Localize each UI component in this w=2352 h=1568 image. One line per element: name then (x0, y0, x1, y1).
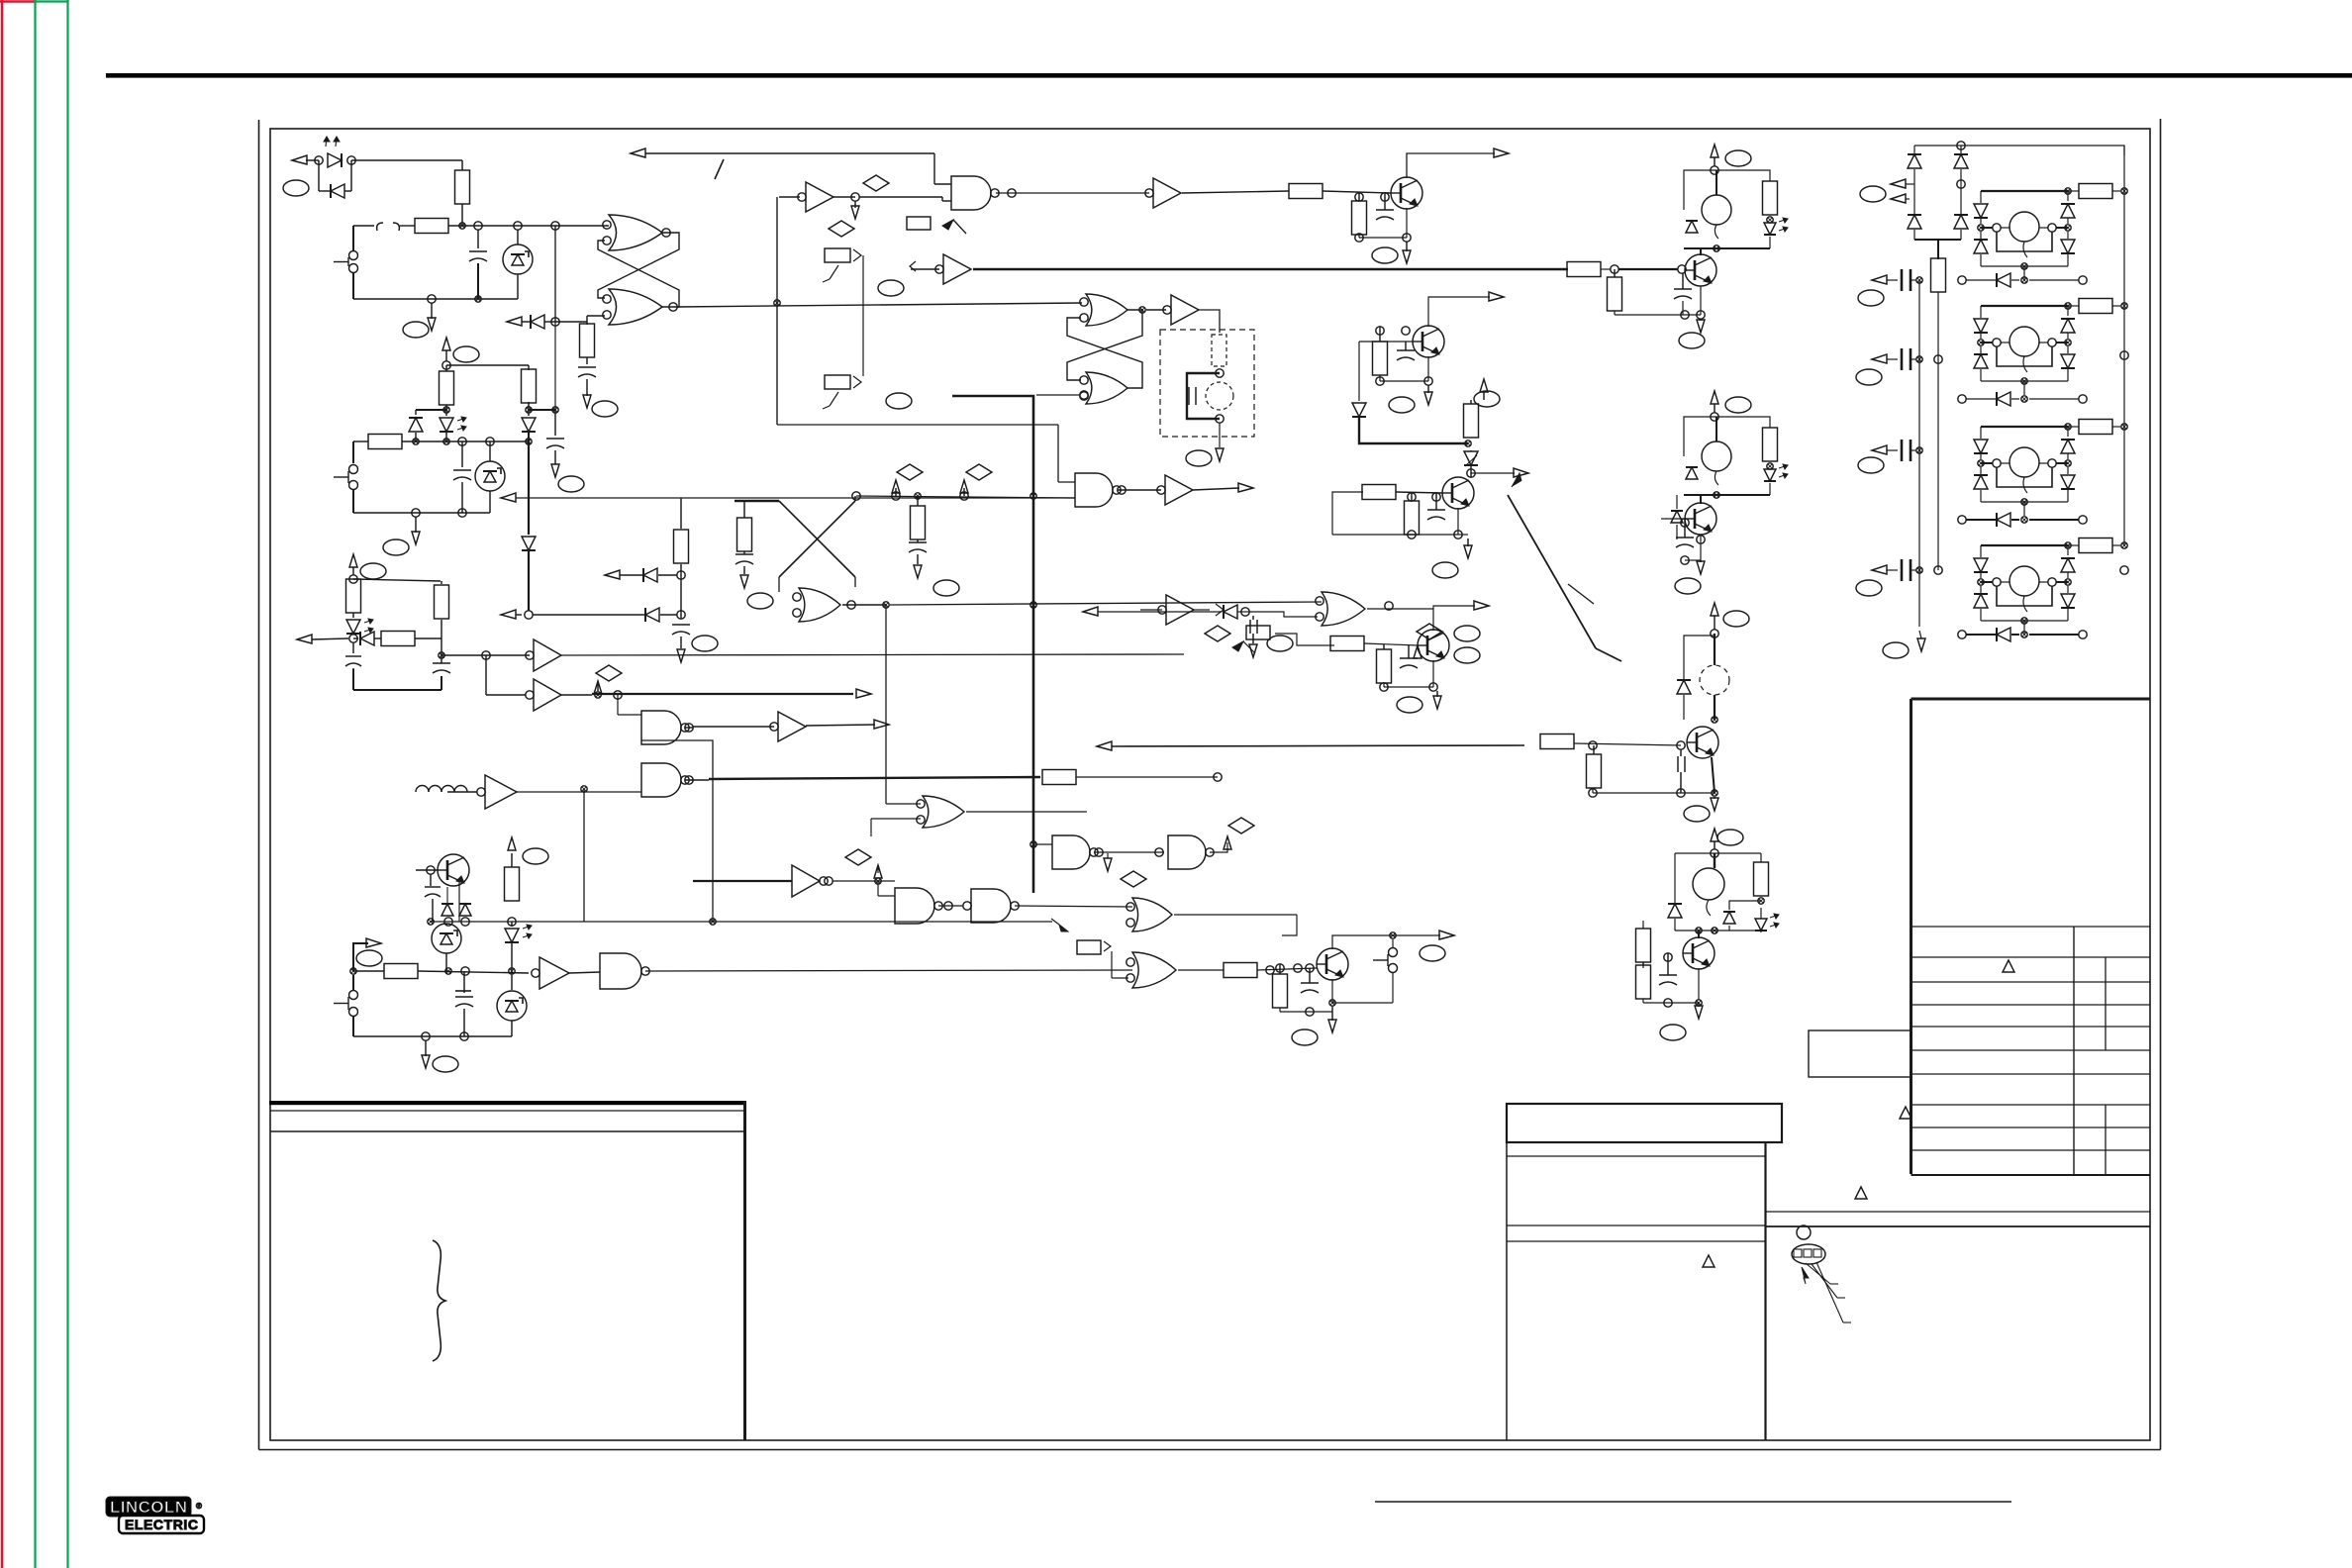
node (852, 492, 968, 500)
node (1711, 413, 1718, 421)
row2 (1958, 392, 2087, 406)
node (1214, 773, 1222, 781)
ground (583, 388, 591, 408)
LED D20 (1755, 908, 1779, 931)
wire (1367, 602, 1433, 610)
label ellipse (558, 476, 584, 492)
capacitor C21 (1676, 519, 1694, 547)
transistor Q9 (1687, 720, 1718, 758)
opto U18 (497, 975, 527, 1036)
opto U15 (432, 924, 461, 971)
wire long 503 (501, 493, 1075, 502)
label ellipse (1292, 1029, 1318, 1045)
NOR gate U21 (1316, 592, 1365, 626)
wire in (910, 261, 939, 271)
NOR gate U2B (603, 289, 662, 325)
wire (1642, 920, 1644, 922)
diamond flag (594, 665, 622, 694)
capacitor C14 (1397, 327, 1415, 360)
resistor R30 (1587, 745, 1602, 788)
wire base (1681, 742, 1687, 745)
row4 (1958, 628, 2087, 641)
NAND U29 (1168, 835, 1214, 869)
thick bus (952, 396, 1033, 893)
resistor R32 (1636, 921, 1676, 962)
wire (461, 204, 463, 226)
brace (433, 1240, 445, 1361)
wire (1219, 423, 1221, 447)
resistor R31 (1754, 862, 1769, 896)
table triangle 1 (2003, 960, 2014, 972)
resistor R23 (1330, 637, 1364, 651)
diamond flag (829, 221, 854, 237)
ground (1424, 385, 1432, 405)
switch S2 (334, 441, 358, 513)
wire (685, 720, 889, 732)
node (944, 902, 952, 910)
NAND U4 (951, 176, 999, 210)
ground (1403, 242, 1411, 263)
LED D15 (1764, 464, 1788, 481)
wire ch1 loop (1684, 170, 1770, 210)
wire (938, 906, 1132, 907)
label ellipse (692, 636, 718, 651)
wire row 827 (871, 819, 921, 836)
opto block B1 (1974, 184, 2127, 281)
buffer U10 (526, 639, 561, 671)
ground (1697, 319, 1705, 333)
node (1711, 166, 1718, 174)
top rule (106, 73, 2352, 78)
buffer U3 (798, 182, 833, 212)
label ellipse (356, 950, 382, 966)
capacitor C2 (578, 367, 596, 388)
node (1712, 717, 1717, 723)
cap bus (1918, 280, 1920, 627)
notes box right edge (270, 1101, 745, 1440)
node (349, 635, 357, 642)
resistor R17 (1352, 193, 1367, 235)
wire (1146, 310, 1220, 333)
node (459, 222, 559, 230)
wire out diamond (1210, 836, 1231, 852)
label ellipse (933, 580, 959, 596)
label ellipse (1186, 450, 1212, 466)
arrow diode row 581 (605, 564, 685, 619)
resistor R33 (1636, 962, 1651, 999)
arrow diode row (507, 315, 587, 329)
ground arrow (914, 565, 922, 578)
row3 (1958, 513, 2087, 527)
node (413, 438, 532, 445)
right bus (2123, 146, 2125, 545)
wire (353, 579, 441, 584)
capacitor C16 (1400, 645, 1418, 668)
arrow diode row 621 (501, 608, 685, 622)
mid box body (1507, 1142, 1766, 1440)
wire bridge bottom (1937, 240, 1939, 259)
resistor R10 (381, 632, 441, 646)
wire collector (1332, 931, 1454, 949)
wire (1257, 964, 1317, 974)
diode D14 (1686, 467, 1698, 479)
vertical bus (774, 197, 780, 425)
LED D1 with receive arrows (324, 137, 342, 167)
NAND U12B (641, 763, 689, 797)
wire collector (1407, 148, 1509, 178)
arrow up (508, 837, 516, 850)
buffer U6 (1163, 295, 1199, 325)
wire row 662 (441, 654, 530, 656)
diamond flag (1414, 624, 1442, 658)
resistor R14 (911, 496, 926, 539)
wire row 981 (353, 971, 529, 973)
capacitor C3 (1189, 387, 1196, 405)
wire base loop (1359, 342, 1414, 401)
ground (1695, 1003, 1703, 1019)
label ellipse (592, 401, 618, 417)
LED D4 (440, 410, 466, 441)
vertical (583, 789, 585, 922)
diode D3 (409, 410, 423, 441)
transistor Q6 (1317, 948, 1348, 980)
arrow up ch2 (1711, 391, 1718, 413)
label ellipse (1679, 333, 1705, 348)
wire base (1643, 953, 1683, 968)
resistor R15 (737, 501, 752, 551)
cap row2 (1856, 348, 1922, 385)
diode D2 (331, 184, 344, 198)
ground (1711, 797, 1718, 811)
svg-text:LINCOLN: LINCOLN (110, 1498, 187, 1517)
motor K2 (1702, 417, 1731, 485)
buffer U22 (1145, 178, 1181, 208)
wire arrow thick (553, 691, 555, 693)
node (443, 407, 558, 413)
switch S4 (1373, 939, 1398, 1003)
wire (1574, 741, 1685, 749)
capacitor C20 (1674, 273, 1692, 315)
label ellipse (1372, 247, 1398, 263)
wire thick 702 (561, 689, 871, 698)
arrow up (442, 338, 450, 361)
wire (554, 226, 556, 322)
node (595, 691, 622, 699)
wire emitter (1376, 356, 1432, 385)
NOR gate U20 (917, 796, 964, 828)
wire (618, 695, 641, 715)
FF3 cross (735, 496, 855, 592)
wire ch2 loop (1684, 417, 1770, 456)
arrow out (1471, 468, 1528, 477)
wire (1174, 915, 1297, 935)
wire (1094, 848, 1164, 856)
diode D5 (522, 410, 536, 441)
resistor R28 (1763, 428, 1778, 461)
NAND U17 (600, 953, 649, 989)
wire top arrow (631, 148, 951, 184)
capacitor C15 (1427, 493, 1445, 520)
gnd bar (455, 971, 471, 991)
resistor R25 (1224, 963, 1257, 978)
opto block B4 (1974, 539, 2127, 636)
node (442, 361, 450, 369)
transistor Q4 (1442, 477, 1474, 509)
transistor Q2 (1391, 177, 1422, 209)
diamond flag (892, 464, 923, 496)
diode D10 (1352, 403, 1468, 443)
label ellipse (1675, 578, 1701, 594)
slash mark (715, 159, 724, 179)
wire (416, 866, 439, 874)
node (1139, 307, 1145, 313)
node (315, 156, 355, 164)
node (1711, 630, 1718, 637)
diode D17 (1677, 680, 1691, 694)
node (662, 229, 677, 311)
label ellipse (1267, 636, 1293, 651)
wire 754 row (1097, 741, 1524, 750)
ground (1433, 691, 1441, 709)
diode D16 (1671, 495, 1683, 539)
wire ch1 bot (1684, 237, 1770, 251)
wire (1036, 391, 1088, 399)
thick bus 272 (973, 262, 1686, 277)
label ellipse (283, 180, 309, 196)
diode D8 (439, 870, 471, 916)
wire base ch2 (1661, 519, 1685, 546)
NAND U27 (963, 889, 1019, 923)
wire ch2 bot (1684, 483, 1770, 498)
resistor R12 (505, 853, 520, 901)
resistor R34 (1931, 258, 1946, 570)
ground arrow (1216, 448, 1224, 461)
diode D12 (1684, 210, 1698, 233)
wire ch3 loop (1684, 636, 1715, 680)
wire (641, 740, 713, 922)
wire loop bottom (353, 512, 490, 514)
mid box header (1507, 1104, 1782, 1142)
wire (458, 881, 460, 922)
LED D6 (346, 613, 373, 634)
green margin column (35, 0, 68, 1568)
NAND U26 (895, 888, 942, 924)
outer schematic frame (259, 119, 2161, 1450)
thermistor circle dashed (1206, 382, 1233, 410)
diode D19 (1723, 901, 1761, 931)
wire gray (1765, 1212, 2150, 1226)
label ellipse (1725, 150, 1751, 166)
wire (569, 972, 600, 973)
wire emitter (1643, 968, 1702, 1007)
transistor Q3 (1413, 326, 1444, 357)
NOR gate U31 (1127, 952, 1176, 988)
node (1711, 849, 1718, 857)
capacitor C8 (425, 874, 441, 922)
wire thick in (693, 880, 792, 882)
resistor R16 (1182, 184, 1391, 199)
resistor R11 (1042, 770, 1218, 785)
wire (966, 811, 1087, 813)
diamond flag (960, 464, 992, 496)
label ellipse (360, 563, 386, 579)
transistor Q7 (1685, 248, 1716, 286)
coil L1 (416, 786, 477, 793)
resistor R21 (1362, 485, 1442, 500)
capacitor C19 (1659, 953, 1677, 985)
arrow out (292, 155, 307, 164)
wire (842, 601, 889, 609)
node (1008, 189, 1016, 197)
zener D11 (1464, 450, 1478, 477)
label ellipse (383, 539, 409, 555)
ground arrow (1249, 644, 1257, 657)
svg-text:®: ® (196, 1502, 202, 1511)
wire (1684, 695, 1715, 720)
wire (486, 655, 526, 695)
diode D18 (1668, 904, 1682, 918)
resistor R4 dashed (1212, 335, 1226, 366)
red margin line (0, 0, 35, 1568)
ground (1458, 535, 1472, 558)
wire (416, 226, 555, 410)
opto U9 (475, 441, 505, 513)
triangle note 3 (1855, 1187, 1867, 1199)
resistor R13 (384, 964, 418, 979)
wire row 446 (353, 441, 529, 442)
node (422, 1032, 468, 1040)
motor K1 (1702, 170, 1731, 239)
wire emitter (1712, 757, 1715, 793)
wire (446, 365, 529, 370)
transistor Q10 (1683, 931, 1715, 969)
node (1216, 369, 1224, 377)
triangle note 4 (1703, 1255, 1715, 1267)
resistor R22 (1405, 493, 1420, 535)
capacitor C11 (735, 551, 753, 574)
wire row (1589, 788, 1717, 797)
diamond flag (1228, 818, 1254, 833)
arrow up ch4 (1711, 829, 1718, 849)
label ellipse (1725, 397, 1751, 413)
wire (833, 881, 895, 896)
capacitor C1 (469, 230, 487, 299)
wire (1332, 492, 1362, 535)
bottom note line (1375, 1501, 2011, 1503)
resistor R3 (580, 322, 595, 364)
label ellipse (1684, 806, 1710, 822)
switch S3 (334, 975, 358, 1036)
wire emitter (1380, 660, 1437, 691)
resistor R26 (1273, 964, 1288, 1008)
capacitor C13 (1376, 193, 1394, 220)
capacitor C5 (453, 441, 471, 513)
NOR gate U30 (1127, 898, 1172, 931)
label ellipse (1883, 642, 1909, 658)
buffer U16 (532, 957, 569, 989)
diode D7 (297, 632, 381, 645)
node (349, 575, 357, 583)
buffer U11 (526, 679, 561, 711)
label ellipse (523, 848, 548, 864)
wire (1064, 922, 1066, 935)
ground (412, 517, 420, 544)
buffer U13 (770, 712, 806, 741)
capacitor C7 (433, 620, 450, 673)
connector box (1246, 626, 1270, 639)
label ellipse (453, 346, 479, 362)
node (1589, 741, 1597, 749)
LED D13 (1764, 218, 1788, 235)
transistor Q5 (1418, 630, 1449, 661)
wire loop bottom (353, 1035, 512, 1037)
wire (410, 225, 609, 227)
revision table (1911, 699, 2151, 1175)
diamond flag (851, 175, 889, 219)
wire (1140, 604, 1224, 616)
arrow out (1238, 483, 1253, 492)
resistor R29 (1540, 735, 1574, 749)
capacitor C6 (345, 642, 361, 669)
label ellipse (1397, 626, 1480, 713)
arrow up (349, 554, 357, 575)
wire (306, 160, 462, 191)
wire emitter (1700, 286, 1702, 315)
ground arrow (740, 575, 748, 588)
connector J1 (823, 248, 861, 282)
wire emitter (1681, 535, 1705, 564)
transistor Q8 (1685, 495, 1716, 535)
node (581, 786, 587, 792)
wire row 931 (431, 921, 1052, 923)
ground (428, 303, 436, 331)
wire long (645, 970, 1132, 971)
resistor R8 (346, 579, 361, 613)
arrow left (1891, 179, 1914, 188)
label ellipse (1420, 945, 1445, 961)
wire emitter row (1332, 508, 1462, 539)
label ellipse (1660, 1025, 1686, 1040)
diamond flag (845, 849, 882, 878)
label ellipse (403, 322, 429, 338)
circle term (2120, 351, 2128, 574)
wire 611 long (890, 602, 1322, 605)
thick drop (522, 441, 536, 611)
wire (862, 255, 864, 376)
wire FF1 out (677, 303, 1082, 307)
buffer U8 (1157, 475, 1193, 505)
wire emitter (1280, 979, 1393, 1016)
node (412, 509, 466, 517)
wire (996, 192, 1149, 194)
label ellipse (747, 593, 773, 609)
wire (1178, 969, 1224, 971)
top right diag mark (1568, 584, 1594, 604)
label ellipse (1432, 562, 1458, 578)
capacitor C10 (909, 539, 927, 564)
wire (777, 425, 1075, 482)
resistor R7 (368, 435, 402, 449)
wire (517, 791, 641, 793)
vertical (886, 605, 921, 804)
node (428, 918, 516, 926)
NOR gate U19 (793, 588, 840, 622)
opto block B2 (1974, 299, 2127, 396)
arrow up ch1 (1711, 145, 1718, 166)
ground (1697, 560, 1705, 574)
selector lever (1508, 473, 1621, 661)
resistor R5 (440, 365, 454, 405)
